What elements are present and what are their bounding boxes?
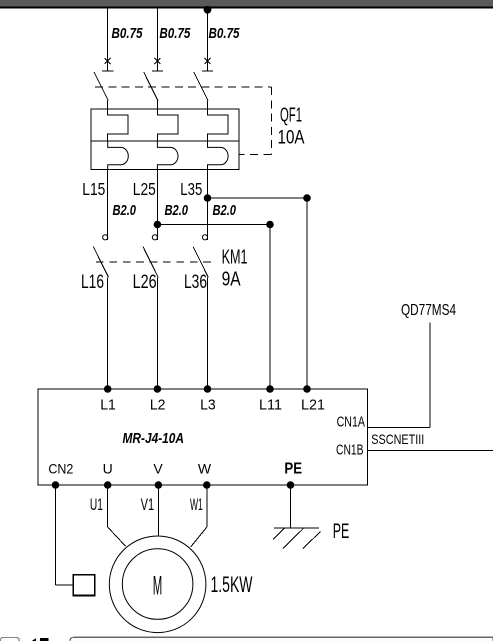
crimp mark x on phase 2 [154,58,160,64]
wire: CN1B horizontal to edge [368,450,493,452]
terminal dot W bottom [203,481,211,489]
svg-text:M: M [153,571,163,601]
svg-text:MR-J4-10A: MR-J4-10A [123,430,185,447]
wire: L21 drop vertical [306,198,308,389]
wire: CN2 horizontal to encoder connector [56,584,74,586]
wire: blade to overload box pole 2 [156,101,158,110]
breaker QF1 dashed outline right side [270,87,272,155]
wire: tap to L21 horizontal [208,197,308,199]
wire: contactor to servo box pole 2 [156,277,158,389]
svg-text:KM1: KM1 [222,246,248,269]
terminal dot V bottom [155,481,163,489]
svg-text:CN2: CN2 [48,461,73,477]
terminal dot U bottom [104,481,112,489]
svg-text:L11: L11 [259,398,282,414]
breaker QF1 blade pole 1 [94,72,108,101]
wire: incoming phase 2 [156,9,158,72]
svg-text:QD77MS4: QD77MS4 [401,302,456,319]
svg-text:V: V [153,461,163,477]
motor M outer circle [109,536,206,633]
contactor KM1 blade pole 2 [143,247,158,278]
junction dot phase 2 / L11 tap [154,221,162,229]
svg-text:B2.0: B2.0 [213,202,237,219]
wire: PE drop [290,485,292,528]
svg-text:W: W [198,461,212,477]
svg-text:PE: PE [333,519,350,543]
svg-text:CN1B: CN1B [336,443,364,459]
svg-text:B2.0: B2.0 [113,202,137,219]
svg-text:U: U [103,461,113,477]
svg-text:1.5KW: 1.5KW [211,572,253,597]
wire: contactor to servo box pole 1 [107,277,109,389]
junction dot top of L21 drop [303,194,311,202]
wire: phase 2 box to contactor [156,170,158,235]
wire: U lead diagonal to motor [108,527,126,546]
svg-text:B2.0: B2.0 [165,202,189,219]
svg-text:V1: V1 [141,495,155,514]
wire: W lead diagonal to motor [191,527,207,547]
toolbar edge (top of CAD window) [0,0,493,7]
terminal dot L3 [204,385,212,393]
wire: U lead vertical [107,485,109,527]
ground bar [274,527,319,529]
terminal dot L11 [266,385,274,393]
bottom UI: nav square [40,638,49,641]
magnetic element (D loop) pole 3 [208,141,229,170]
wire: L11 drop vertical [269,225,271,390]
thermal element (square loop) pole 2 [157,109,178,141]
encoder connector box [73,575,94,596]
contactor KM1 blade pole 1 [93,247,108,278]
contactor KM1 contact circle pole 2 [152,235,157,240]
svg-text:L3: L3 [200,398,216,414]
svg-text:9A: 9A [222,269,242,291]
breaker QF1 trip-element box [91,109,239,170]
wire: phase 1 box to contactor [107,170,109,235]
wire: blade to overload box pole 3 [207,101,209,110]
svg-text:L16: L16 [81,272,104,293]
junction dot phase 3 / L21 tap [204,194,212,202]
svg-text:L26: L26 [133,272,157,293]
bottom UI: small button outline [1,638,20,641]
wire: CN2 drop [55,485,57,585]
svg-text:L36: L36 [184,272,207,293]
breaker QF1 dashed linkage line [95,86,271,88]
svg-text:B0.75: B0.75 [209,25,241,42]
wire: tap to L11 horizontal [157,224,270,226]
bottom UI: model tab [70,637,493,641]
trip-element box divider [91,140,239,142]
svg-text:SSCNETIII: SSCNETIII [371,431,424,447]
terminal dot L21 [303,385,311,393]
wire stub beside contact circle pole 1 [107,233,109,240]
svg-text:PE: PE [284,461,302,478]
svg-text:L1: L1 [100,398,116,414]
contactor KM1 contact circle pole 1 [103,235,108,240]
terminal dot CN2 bottom [52,481,60,489]
ground hatch 1 [273,528,284,539]
svg-text:W1: W1 [190,495,203,514]
breaker QF1 fixed contact bar pole 3 [202,70,213,72]
contactor KM1 blade pole 3 [193,247,208,278]
breaker QF1 blade pole 2 [144,72,158,101]
thermal element (square loop) pole 3 [208,109,229,141]
ground hatch 2 [283,529,304,549]
svg-text:B0.75: B0.75 [159,25,191,42]
svg-text:CN1A: CN1A [337,415,366,431]
thermal element (square loop) pole 1 [108,109,129,141]
svg-text:L2: L2 [150,398,166,414]
crimp mark x on phase 1 [105,58,111,64]
contactor KM1 contact circle pole 3 [202,235,207,240]
svg-text:10A: 10A [278,127,305,149]
crimp mark x on phase 3 [205,58,211,64]
wire: incoming phase 1 [107,9,109,72]
svg-text:L15: L15 [82,179,105,199]
bottom UI: nav triangle [32,638,37,641]
breaker QF1 dashed outline bottom stub [239,154,271,156]
breaker QF1 blade pole 3 [194,72,208,101]
ground hatch 3 [303,532,321,549]
terminal dot L2 [154,385,162,393]
wire: contactor to servo box pole 3 [207,277,209,389]
breaker QF1 fixed contact bar pole 2 [152,70,163,72]
terminal dot L1 [104,385,112,393]
wire: V lead vertical [157,485,159,536]
junction dot top of L11 drop [266,221,274,229]
servo amplifier U1 box MR-J4-10A [38,389,367,485]
svg-text:L25: L25 [133,179,156,199]
wire: phase 3 box to contactor [207,170,209,235]
wire: QD77MS4 drop to CN1A [429,322,431,427]
wire stub beside contact circle pole 2 [156,233,158,240]
svg-text:U1: U1 [90,495,103,514]
svg-text:L21: L21 [301,398,325,414]
wire: CN1A horizontal [368,426,431,428]
wire stub beside contact circle pole 3 [207,233,209,240]
wire: W lead vertical [206,485,208,527]
junction dot on phase 3 at top [204,6,212,14]
breaker QF1 fixed contact bar pole 1 [102,70,113,72]
wire: incoming phase 3 [207,9,209,72]
svg-text:L35: L35 [180,179,202,199]
motor M inner circle [122,549,193,620]
contactor KM1 dashed linkage [96,261,213,263]
wire: blade to overload box pole 1 [107,101,109,110]
svg-text:B0.75: B0.75 [112,25,144,42]
magnetic element (D loop) pole 1 [108,141,129,170]
terminal dot PE bottom [287,481,295,489]
svg-text:QF1: QF1 [280,105,302,127]
magnetic element (D loop) pole 2 [157,141,178,170]
